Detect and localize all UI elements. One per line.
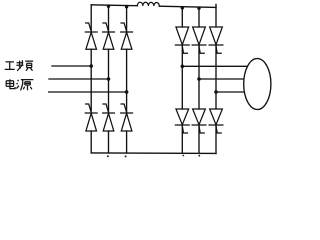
wire motor phase w xyxy=(216,91,247,93)
thyristor VT7 xyxy=(175,27,189,53)
junction dot node b L2 xyxy=(107,77,111,81)
thyristor VT4 xyxy=(85,104,97,131)
thyristor VT3 xyxy=(103,23,115,49)
node N bottom DC rail xyxy=(91,152,216,155)
junction dot node u R1 xyxy=(181,65,185,69)
junction dot bottom rail at L2 xyxy=(107,155,109,157)
junction dot node c L3 xyxy=(125,90,129,94)
wire leg R3 xyxy=(215,7,217,153)
thyristor VT9 xyxy=(192,27,206,53)
junction dot node w R3 xyxy=(214,90,218,94)
junction dot bottom rail at L3 xyxy=(125,155,127,157)
wire leg L3 xyxy=(126,6,128,154)
motor M synchronous machine xyxy=(244,59,271,110)
junction dot bottom rail at R2 xyxy=(198,155,200,157)
label text 电源 (drawn strokes) xyxy=(6,79,33,90)
wire motor phase u xyxy=(182,65,248,67)
wire phase input c xyxy=(49,91,127,93)
junction dot bottom rail at R1 xyxy=(182,155,184,157)
thyristor VT5 xyxy=(121,23,133,49)
junction dot top rail at L3 xyxy=(125,5,128,8)
junction dot top rail at R2 xyxy=(197,7,200,10)
thyristor VT11 xyxy=(209,27,223,53)
thyristor VT12 xyxy=(192,109,206,133)
wire leg R1 xyxy=(181,7,183,154)
wire leg L1 xyxy=(90,5,92,153)
thyristor VT2 xyxy=(121,104,133,131)
wire phase input a xyxy=(52,65,91,67)
wire top DC rail right segment xyxy=(159,4,216,7)
wire leg L2 xyxy=(108,5,110,153)
junction dot top rail at L2 xyxy=(107,5,110,8)
wire leg R2 xyxy=(198,7,200,153)
inductor Ld smoothing reactor xyxy=(137,2,159,6)
thyristor VT10 xyxy=(175,109,189,133)
label text 工频 (drawn strokes) xyxy=(5,60,33,71)
wire phase input b xyxy=(49,78,109,80)
junction dot node a L1 xyxy=(89,64,93,68)
junction dot top rail at R1 xyxy=(181,6,184,9)
thyristor VT1 xyxy=(85,23,97,49)
junction dot node v R2 xyxy=(197,77,201,81)
thyristor VT8 xyxy=(209,109,223,133)
wire motor phase v xyxy=(199,78,246,80)
thyristor VT6 xyxy=(103,104,115,131)
node P top DC rail left segment xyxy=(91,4,137,7)
